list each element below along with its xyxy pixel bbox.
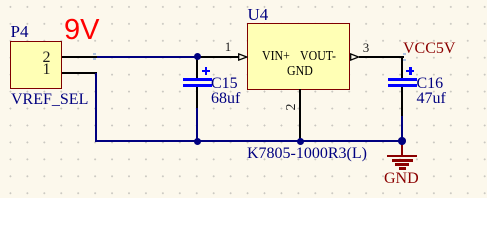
value 68uf xyxy=(211,91,240,107)
designator U4 xyxy=(248,6,269,23)
wire left vertical xyxy=(95,73,97,141)
wire C15 bottom xyxy=(196,108,198,142)
regulator U4 body xyxy=(247,23,350,90)
wire pin2 to junction xyxy=(97,56,198,58)
wire C16 bottom xyxy=(401,116,403,142)
capacitor C16 symbol xyxy=(0,0,1,1)
pin 1 of P4 xyxy=(0,0,1,1)
designator C15 xyxy=(211,76,238,92)
wire vertex marks xyxy=(93,53,96,55)
pin 2 of U4 (GND) xyxy=(0,0,1,1)
pin 1 of U4 xyxy=(0,0,1,1)
junction GND xyxy=(398,137,406,145)
junction U4 GND xyxy=(297,138,304,145)
wire corner down to C16 (pin) xyxy=(401,56,403,78)
power port VCC5V xyxy=(403,41,455,57)
pin 3 of U4 xyxy=(0,0,1,1)
comment K7805-1000R3(L) xyxy=(247,146,367,162)
ground label GND xyxy=(384,171,419,187)
net label VREF_SEL xyxy=(11,92,88,108)
designator C16 xyxy=(417,76,444,92)
junction C15 top xyxy=(194,53,201,60)
pin name VOUT- xyxy=(300,50,336,64)
net label 9V xyxy=(64,16,99,45)
connector P4 body xyxy=(10,41,62,89)
capacitor C15 symbol xyxy=(0,0,1,1)
pin name VIN+ xyxy=(262,50,290,64)
pin name GND xyxy=(287,65,313,79)
ground symbol xyxy=(0,0,1,1)
junction C15 bottom xyxy=(194,138,201,145)
wire bottom horizontal xyxy=(95,140,404,142)
designator P4 xyxy=(11,23,29,40)
value 47uf xyxy=(417,91,446,107)
pin 2 of P4 xyxy=(0,0,1,1)
